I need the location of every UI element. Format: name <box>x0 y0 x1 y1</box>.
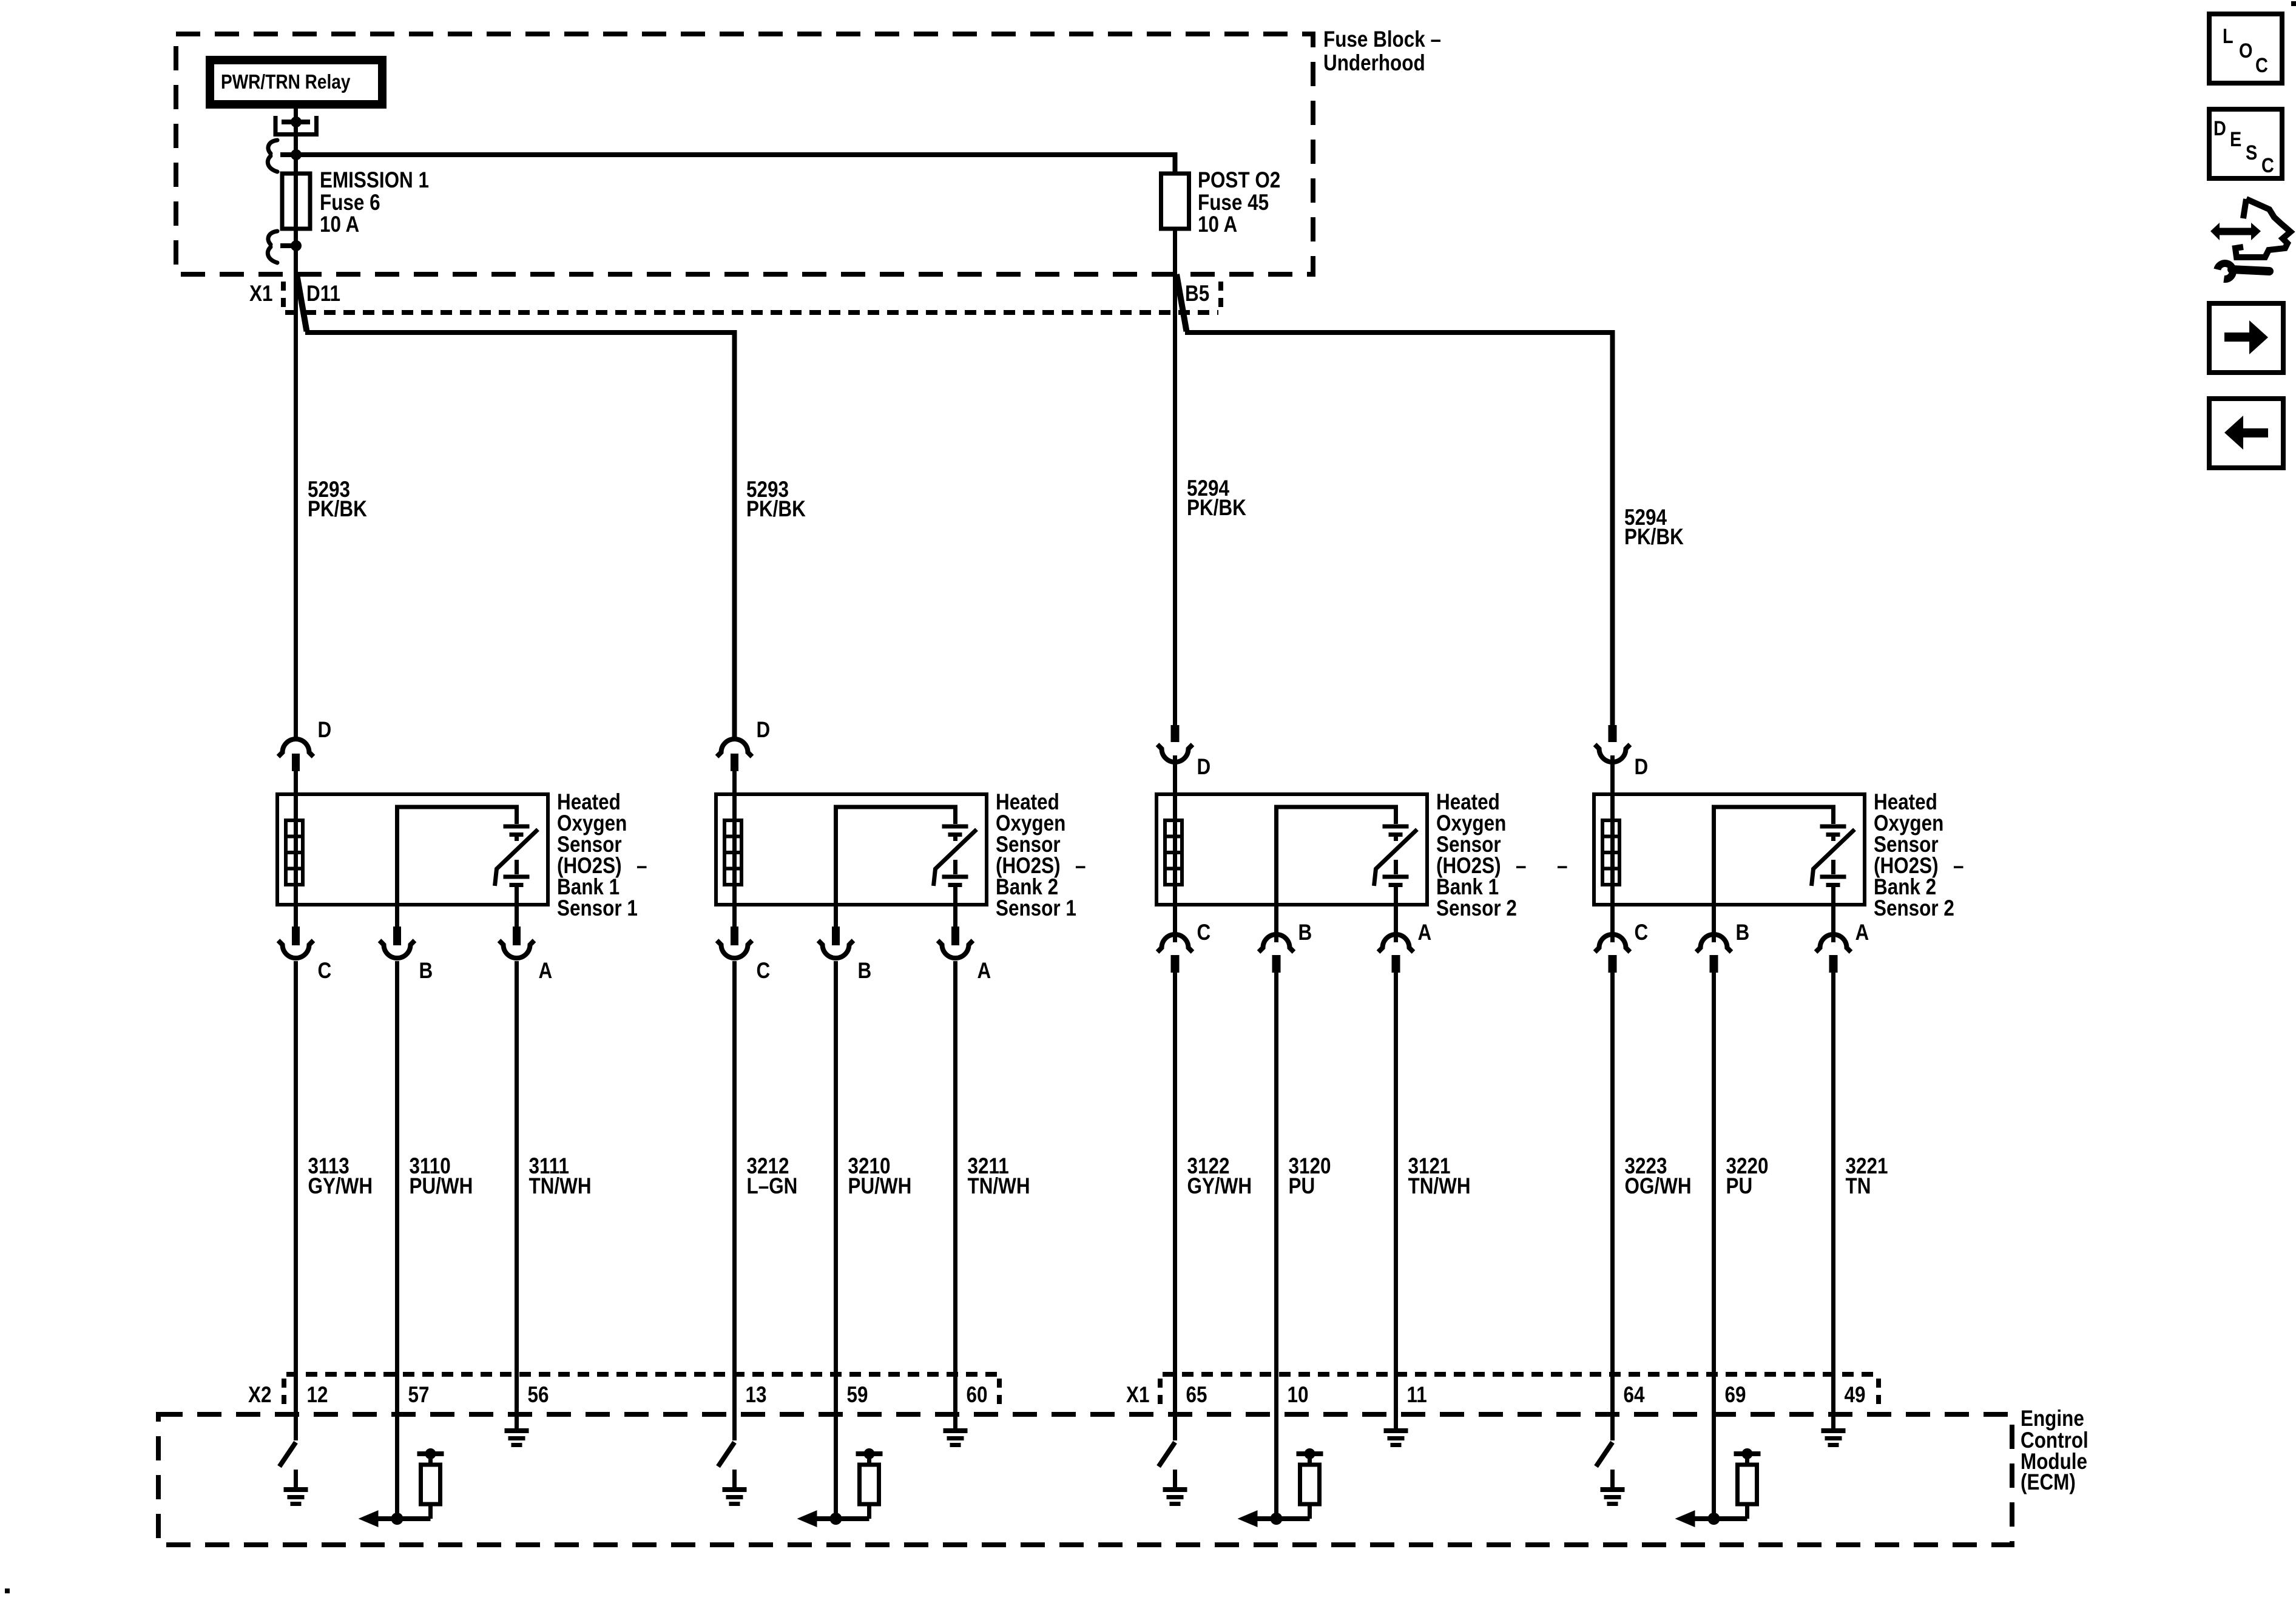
pin label 56 (ECM) <box>528 1383 549 1408</box>
supply T-bar (pin 57) <box>417 1448 444 1465</box>
label: Fuse Block - Underhood <box>1323 27 1441 76</box>
net label 3111 TN/WH <box>529 1154 592 1199</box>
pull-up resistor (pin 59) <box>860 1465 879 1504</box>
internal wire pin B of HO2S Bank 2 Sensor 2 <box>1714 807 1834 905</box>
svg-text:Underhood: Underhood <box>1323 51 1425 76</box>
pin label B HO2S Bank 1 Sensor 2 <box>1298 920 1312 945</box>
svg-text:–: – <box>1516 854 1526 879</box>
svg-text:TN: TN <box>1846 1174 1871 1199</box>
label: HO2S Bank 2 Sensor 1 <box>996 790 1086 921</box>
wire: net 3120 PU <box>1274 980 1278 1519</box>
node: junction in ECM (pin 57) <box>391 1513 403 1525</box>
svg-text:PK/BK: PK/BK <box>746 497 806 522</box>
supply T-bar (pin 59) <box>856 1448 883 1465</box>
svg-text:A: A <box>977 959 991 984</box>
net label 5294 PK/BK (B1S2 feed) <box>1187 476 1246 521</box>
net label 3122 GY/WH <box>1187 1154 1252 1199</box>
svg-text:D: D <box>2213 116 2226 140</box>
sensor cell of HO2S Bank 1 Sensor 1 <box>504 825 530 905</box>
svg-text:PU/WH: PU/WH <box>848 1174 912 1199</box>
connector row X1 of fuse block (dotted) <box>283 282 1221 312</box>
node: junction in ECM (pin 10) <box>1271 1513 1283 1525</box>
switch to ground in ECM (pin 65) <box>1159 1442 1175 1467</box>
svg-text:11: 11 <box>1407 1383 1427 1408</box>
svg-text:A: A <box>1418 920 1432 945</box>
connector pin A of HO2S Bank 1 Sensor 2 <box>1379 905 1414 980</box>
wire: through fuse 6 <box>294 174 298 246</box>
label: HO2S Bank 2 Sensor 2 <box>1874 790 1963 921</box>
pin label D HO2S Bank 1 Sensor 1 <box>318 718 332 743</box>
heater element of HO2S Bank 1 Sensor 2 <box>1165 820 1182 885</box>
variable slash of HO2S Bank 1 Sensor 2 <box>1374 829 1417 886</box>
pin label 65 (ECM) <box>1186 1383 1207 1408</box>
wire: net 3111 TN/WH <box>515 980 519 1430</box>
svg-text:Fuse Block –: Fuse Block – <box>1323 27 1441 52</box>
label: HO2S Bank 1 Sensor 1 <box>557 790 647 921</box>
svg-text:D: D <box>318 718 332 743</box>
signal arrow in ECM (pin 10) <box>1238 1510 1277 1527</box>
pin label X1 (ECM) <box>1126 1383 1149 1408</box>
pin label B5 <box>1185 282 1209 306</box>
svg-text:TN/WH: TN/WH <box>968 1174 1030 1199</box>
svg-text:–: – <box>636 854 647 879</box>
wire: relay to fuse junction <box>294 122 298 174</box>
svg-text:10: 10 <box>1288 1383 1309 1408</box>
wire: B5 to HO2S B1S2 pin D <box>1173 229 1177 725</box>
wire to pull-up resistor (pin 59) <box>836 1504 869 1519</box>
wire: net 3110 PU/WH <box>395 980 399 1519</box>
svg-text:59: 59 <box>847 1383 868 1408</box>
svg-text:49: 49 <box>1845 1383 1866 1408</box>
svg-text:D11: D11 <box>306 282 340 306</box>
svg-text:Sensor 1: Sensor 1 <box>996 896 1076 921</box>
ground (pin 13) <box>723 1470 747 1506</box>
label: HO2S Bank 1 Sensor 2 <box>1436 790 1567 921</box>
svg-text:Engine: Engine <box>2021 1406 2084 1431</box>
pin label C HO2S Bank 2 Sensor 2 <box>1635 920 1649 945</box>
svg-text:Fuse 6: Fuse 6 <box>320 191 380 215</box>
wire branch: B5 to HO2S B2S2 (slant+run) <box>1177 274 1613 725</box>
svg-text:PK/BK: PK/BK <box>1187 496 1246 521</box>
switch to ground in ECM (pin 64) <box>1596 1442 1613 1467</box>
svg-text:B5: B5 <box>1185 282 1209 306</box>
wire: net 3211 TN/WH <box>953 980 957 1430</box>
svg-text:X1: X1 <box>1126 1383 1149 1408</box>
pin label 69 (ECM) <box>1725 1383 1746 1408</box>
ground (pin 65) <box>1163 1470 1187 1506</box>
icon: service hand with wrench <box>2210 199 2291 279</box>
svg-text:PU/WH: PU/WH <box>410 1174 473 1199</box>
connector pin B of HO2S Bank 1 Sensor 2 <box>1259 905 1294 980</box>
variable slash of HO2S Bank 1 Sensor 1 <box>495 829 538 886</box>
signal arrow in ECM (pin 57) <box>359 1510 397 1527</box>
wire: bus from junction to fuse 45 <box>280 155 1175 174</box>
svg-text:(ECM): (ECM) <box>2021 1470 2076 1495</box>
svg-text:–: – <box>1557 854 1567 879</box>
net label 3212 L–GN <box>747 1154 798 1199</box>
connector pin A of HO2S Bank 2 Sensor 1 <box>938 905 973 980</box>
internal wire pin B of HO2S Bank 1 Sensor 2 <box>1277 807 1396 905</box>
pin label X1 <box>249 282 272 306</box>
switch to ground in ECM (pin 12) <box>280 1442 296 1467</box>
connector pin A of HO2S Bank 1 Sensor 1 <box>499 905 535 980</box>
pin label A HO2S Bank 1 Sensor 2 <box>1418 920 1432 945</box>
wire: net 3220 PU <box>1712 980 1716 1519</box>
wire: net 3113 GY/WH <box>294 980 298 1440</box>
svg-text:–: – <box>1075 854 1086 879</box>
svg-text:10 A: 10 A <box>1198 212 1237 237</box>
svg-text:S: S <box>2246 141 2257 164</box>
label: Engine Control Module (ECM) <box>2021 1406 2088 1495</box>
svg-text:GY/WH: GY/WH <box>1187 1174 1252 1199</box>
node: junction in ECM (pin 59) <box>830 1513 842 1525</box>
svg-text:–: – <box>1953 854 1963 879</box>
internal wire pin B of HO2S Bank 1 Sensor 1 <box>397 807 517 905</box>
svg-text:D: D <box>1635 755 1649 780</box>
ECM connector row X2 (dotted) <box>284 1374 999 1405</box>
svg-text:12: 12 <box>307 1383 328 1408</box>
svg-text:PWR/TRN Relay: PWR/TRN Relay <box>221 71 350 93</box>
pin label C HO2S Bank 1 Sensor 2 <box>1197 920 1211 945</box>
svg-text:GY/WH: GY/WH <box>308 1174 373 1199</box>
svg-text:B: B <box>1736 920 1750 945</box>
svg-text:L–GN: L–GN <box>747 1174 798 1199</box>
node: fuse 6 feed junction <box>291 149 302 160</box>
connector pin C of HO2S Bank 2 Sensor 2 <box>1595 905 1630 980</box>
pull-up resistor (pin 57) <box>421 1465 441 1504</box>
svg-text:C: C <box>757 959 771 984</box>
net label 3221 TN <box>1846 1154 1888 1199</box>
svg-text:A: A <box>539 959 553 984</box>
pin label D HO2S Bank 2 Sensor 1 <box>757 718 771 743</box>
svg-text:Sensor 1: Sensor 1 <box>557 896 638 921</box>
ground (pin 11) <box>1384 1428 1408 1447</box>
wire: net 3223 OG/WH <box>1610 980 1615 1440</box>
svg-text:PK/BK: PK/BK <box>1624 525 1684 550</box>
svg-text:TN/WH: TN/WH <box>529 1174 592 1199</box>
pin label B HO2S Bank 2 Sensor 1 <box>858 959 872 984</box>
ECM enclosure (dashed) <box>158 1414 2012 1545</box>
wire: net 3210 PU/WH <box>834 980 838 1519</box>
net label 3121 TN/WH <box>1408 1154 1471 1199</box>
wire: relay output <box>294 109 298 122</box>
HO2S Bank 2 Sensor 2 box <box>1594 794 1865 905</box>
connector pin A of HO2S Bank 2 Sensor 2 <box>1816 905 1851 980</box>
svg-text:Fuse 45: Fuse 45 <box>1198 191 1269 215</box>
connector pin D of HO2S Bank 2 Sensor 2 <box>1595 725 1630 796</box>
ground (pin 56) <box>505 1428 529 1447</box>
supply T-bar (pin 69) <box>1734 1448 1761 1465</box>
svg-text:60: 60 <box>967 1383 988 1408</box>
svg-text:D: D <box>1197 755 1211 780</box>
pin label 10 (ECM) <box>1288 1383 1309 1408</box>
svg-text:13: 13 <box>746 1383 767 1408</box>
svg-text:C: C <box>2255 53 2268 77</box>
relay contact terminal bracket <box>275 116 317 135</box>
connector pin D of HO2S Bank 1 Sensor 1 <box>279 739 314 796</box>
net label 3120 PU <box>1289 1154 1331 1199</box>
svg-text:B: B <box>419 959 433 984</box>
svg-text:C: C <box>318 959 332 984</box>
wire: heater through HO2S Bank 2 Sensor 1 <box>732 796 737 905</box>
wire: net 3221 TN <box>1831 980 1835 1430</box>
node: junction in ECM (pin 69) <box>1708 1513 1720 1525</box>
svg-text:O: O <box>2239 39 2252 62</box>
connector pin B of HO2S Bank 2 Sensor 2 <box>1697 905 1732 980</box>
pin label A HO2S Bank 1 Sensor 1 <box>539 959 553 984</box>
svg-text:Sensor 2: Sensor 2 <box>1874 896 1954 921</box>
supply T-bar (pin 10) <box>1297 1448 1323 1465</box>
pin label 59 (ECM) <box>847 1383 868 1408</box>
pin label 64 (ECM) <box>1624 1383 1645 1408</box>
variable slash of HO2S Bank 2 Sensor 1 <box>934 829 977 886</box>
wire: heater through HO2S Bank 2 Sensor 2 <box>1610 796 1615 905</box>
net label 3211 TN/WH <box>968 1154 1030 1199</box>
wire to pull-up resistor (pin 57) <box>397 1504 431 1519</box>
svg-text:Sensor 2: Sensor 2 <box>1436 896 1517 921</box>
pin label D HO2S Bank 1 Sensor 2 <box>1197 755 1211 780</box>
wire: net 3121 TN/WH <box>1394 980 1398 1430</box>
net label 3110 PU/WH <box>410 1154 473 1199</box>
net label 3223 OG/WH <box>1625 1154 1692 1199</box>
svg-text:A: A <box>1855 920 1869 945</box>
svg-text:OG/WH: OG/WH <box>1625 1174 1692 1199</box>
connector pin B of HO2S Bank 2 Sensor 1 <box>819 905 854 980</box>
svg-text:10 A: 10 A <box>320 212 359 237</box>
page mark bottom-left <box>5 1588 10 1593</box>
signal arrow in ECM (pin 69) <box>1675 1510 1714 1527</box>
svg-text:C: C <box>2261 154 2274 177</box>
net label 3113 GY/WH <box>308 1154 373 1199</box>
wire to pull-up resistor (pin 69) <box>1714 1504 1747 1519</box>
svg-text:POST O2: POST O2 <box>1198 168 1280 193</box>
variable slash of HO2S Bank 2 Sensor 2 <box>1812 829 1855 886</box>
icon: arrow right box <box>2209 303 2283 373</box>
pin label 60 (ECM) <box>967 1383 988 1408</box>
net label 5293 PK/BK (B2S1 feed) <box>746 478 806 522</box>
svg-text:L: L <box>2223 24 2234 48</box>
HO2S Bank 1 Sensor 1 box <box>277 794 548 905</box>
HO2S Bank 1 Sensor 2 box <box>1156 794 1427 905</box>
pull-up resistor (pin 69) <box>1738 1465 1757 1504</box>
ECM connector row X1 (dotted) <box>1160 1374 1879 1405</box>
connector pin D of HO2S Bank 1 Sensor 2 <box>1158 725 1193 796</box>
svg-text:C: C <box>1635 920 1649 945</box>
pull-up resistor (pin 10) <box>1300 1465 1320 1504</box>
svg-text:PU: PU <box>1726 1174 1753 1199</box>
internal wire pin B of HO2S Bank 2 Sensor 1 <box>836 807 956 905</box>
pin label 12 (ECM) <box>307 1383 328 1408</box>
pin label B HO2S Bank 1 Sensor 1 <box>419 959 433 984</box>
heater element of HO2S Bank 1 Sensor 1 <box>286 820 303 885</box>
pin label X2 <box>248 1383 271 1408</box>
pin label 11 (ECM) <box>1407 1383 1427 1408</box>
ground (pin 49) <box>1822 1428 1846 1447</box>
svg-text:X2: X2 <box>248 1383 271 1408</box>
svg-text:TN/WH: TN/WH <box>1408 1174 1471 1199</box>
connector pin C of HO2S Bank 2 Sensor 1 <box>717 905 752 980</box>
connector pin C of HO2S Bank 1 Sensor 1 <box>279 905 314 980</box>
svg-text:PU: PU <box>1289 1174 1315 1199</box>
svg-text:57: 57 <box>408 1383 430 1408</box>
svg-text:69: 69 <box>1725 1383 1746 1408</box>
svg-text:B: B <box>1298 920 1312 945</box>
sensor cell of HO2S Bank 2 Sensor 2 <box>1820 825 1846 905</box>
fuse block - underhood enclosure (dashed) <box>176 34 1313 274</box>
relay K: PWR/TRN Relay box <box>210 60 382 104</box>
wire branch: D11 to HO2S B2S1 (slant+run) <box>297 274 735 741</box>
pin label C HO2S Bank 1 Sensor 1 <box>318 959 332 984</box>
svg-text:E: E <box>2230 127 2241 151</box>
ground (pin 12) <box>284 1470 308 1506</box>
svg-text:64: 64 <box>1624 1383 1645 1408</box>
wire: D11 to HO2S B1S1 pin D <box>294 246 298 741</box>
svg-text:56: 56 <box>528 1383 549 1408</box>
label: POST O2 / Fuse 45 / 10 A <box>1198 168 1280 237</box>
node: relay contact <box>291 116 302 127</box>
net label 3220 PU <box>1726 1154 1769 1199</box>
wire: heater through HO2S Bank 1 Sensor 2 <box>1173 796 1177 905</box>
ground (pin 60) <box>944 1428 968 1447</box>
svg-text:C: C <box>1197 920 1211 945</box>
pin label A HO2S Bank 2 Sensor 2 <box>1855 920 1869 945</box>
label: EMISSION 1 / Fuse 6 / 10 A <box>320 168 429 237</box>
wire to pull-up resistor (pin 10) <box>1277 1504 1310 1519</box>
connector pin C of HO2S Bank 1 Sensor 2 <box>1158 905 1193 980</box>
svg-text:X1: X1 <box>249 282 272 306</box>
fuse F6 <box>282 174 310 229</box>
svg-text:D: D <box>757 718 771 743</box>
switch to ground in ECM (pin 13) <box>718 1442 735 1467</box>
sensor cell of HO2S Bank 2 Sensor 1 <box>942 825 968 905</box>
connector pin D of HO2S Bank 2 Sensor 1 <box>717 739 752 796</box>
pin label D11 <box>306 282 340 306</box>
net label 3210 PU/WH <box>848 1154 912 1199</box>
net label 5293 PK/BK (B1S1 feed) <box>308 478 367 522</box>
pin label B HO2S Bank 2 Sensor 2 <box>1736 920 1750 945</box>
net label 5294 PK/BK (B2S2 feed) <box>1624 505 1684 550</box>
sensor cell of HO2S Bank 1 Sensor 2 <box>1383 825 1409 905</box>
wire: net 3122 GY/WH <box>1173 980 1177 1440</box>
pin label D HO2S Bank 2 Sensor 2 <box>1635 755 1649 780</box>
fuse F45 <box>1161 174 1189 229</box>
node: fuse 6 output junction <box>291 240 302 251</box>
svg-text:B: B <box>858 959 872 984</box>
ground (pin 64) <box>1601 1470 1625 1506</box>
signal arrow in ECM (pin 59) <box>797 1510 836 1527</box>
svg-text:PK/BK: PK/BK <box>308 497 367 522</box>
wire: stub to junction below fuse 6 <box>280 243 296 248</box>
heater element of HO2S Bank 2 Sensor 1 <box>724 820 741 885</box>
heater element of HO2S Bank 2 Sensor 2 <box>1602 820 1619 885</box>
pin label A HO2S Bank 2 Sensor 1 <box>977 959 991 984</box>
connector pin B of HO2S Bank 1 Sensor 1 <box>380 905 415 980</box>
HO2S Bank 2 Sensor 1 box <box>716 794 987 905</box>
svg-text:EMISSION 1: EMISSION 1 <box>320 168 429 193</box>
wire: net 3212 L–GN <box>732 980 737 1440</box>
pin label 57 (ECM) <box>408 1383 430 1408</box>
pin label 13 (ECM) <box>746 1383 767 1408</box>
icon: arrow left box <box>2209 399 2283 468</box>
inline connector symbol at fuse 6 line side <box>268 140 277 172</box>
wire: heater through HO2S Bank 1 Sensor 1 <box>294 796 298 905</box>
icon: LOC box <box>2209 14 2282 83</box>
pin label C HO2S Bank 2 Sensor 1 <box>757 959 771 984</box>
pin label 49 (ECM) <box>1845 1383 1866 1408</box>
inline connector symbol below fuse 6 <box>268 231 277 263</box>
page mark top-right <box>2291 1 2296 6</box>
icon: DESC box <box>2209 109 2282 178</box>
svg-text:65: 65 <box>1186 1383 1207 1408</box>
